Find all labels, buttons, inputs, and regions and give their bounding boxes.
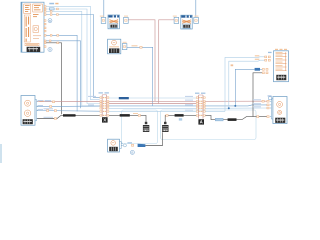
comp8 wire pins: [47, 101, 57, 120]
thick bar black r7 left: [63, 114, 76, 116]
bus left labels: [38, 100, 44, 101]
bus r2 red col1-col2: [109, 100, 198, 102]
circled label B2: [48, 47, 52, 51]
bus r4 blue col2-comp9: [205, 105, 267, 106]
bus r5 lblue col1-col2: [109, 107, 198, 109]
column1 pin number labels: [103, 97, 106, 116]
wire lamp1 feed vertical x103.8: [103, 0, 105, 17]
wire blue vert x236 to comp7: [235, 69, 254, 106]
comp9 label Ra: [268, 95, 272, 96]
zone box right (harness zone outline): [161, 110, 257, 140]
comp8 body: [21, 96, 35, 126]
column1 black box X: [102, 117, 108, 122]
wire dark comp8 ground row: [37, 115, 77, 118]
comp9 body: [273, 97, 287, 124]
svg-text:B: B: [49, 48, 51, 52]
column2 black box A: [198, 119, 204, 124]
wire box row y35.3 to vert x77: [44, 35, 77, 111]
lamp1 right tab: [124, 16, 129, 24]
thick bar blue comp10: [138, 144, 146, 147]
edge streak bottom-left: [0, 144, 2, 163]
wire comp10 ground to ground2: [145, 132, 162, 145]
wire lblue vert x228.8 to comp7: [229, 60, 265, 108]
wire lblue vert x225 to comp7: [225, 57, 265, 112]
bus r6 lblue comp8-col1: [37, 110, 100, 113]
wire lamp2 feed vertical x195.8: [195, 0, 197, 17]
bus r5 lblue col2-comp9: [205, 107, 267, 109]
wire labels row y6: [49, 3, 54, 5]
column2 labels top: [195, 93, 199, 94]
wire box row y6.4 to vert x90.5: [44, 6, 100, 99]
bus r7 dark col1 to ground1: [109, 115, 146, 122]
relay box pins right edge: [44, 6, 46, 48]
column2 twin verticals: [199, 95, 203, 119]
comp9 wire labels: [253, 99, 261, 100]
wire red lamp1 to vert x155 down to r2: [128, 20, 155, 102]
junction dot r4/x236: [234, 105, 236, 107]
wire box row y11.4 to vert x84: [44, 11, 100, 106]
wire box row y9 to vert x87: [44, 9, 100, 104]
comp7 left pins: [262, 56, 270, 74]
bus r3 red col1-col2: [109, 103, 198, 105]
column1 pins: [100, 97, 109, 116]
comp8 wire labels: [40, 100, 44, 101]
thick bar black r7 mid: [120, 114, 130, 117]
comp10 pin: [131, 144, 133, 146]
bus r1 light blue col1-col2: [109, 97, 198, 99]
r7 label left of ground1: [133, 113, 138, 114]
bus r6 lblue col1-col2: [109, 110, 198, 112]
column1 left wire labels: [88, 96, 96, 106]
wire dark col2 dip to comp9: [205, 115, 215, 119]
comp7 label Ra: [268, 52, 272, 53]
svg-text:B: B: [49, 19, 51, 23]
comp5 body: [108, 39, 121, 54]
zone label right: [179, 118, 182, 120]
wire comp5 to vert x152.7 down to r4: [127, 47, 153, 106]
thick bar black r7 right-mid: [175, 114, 184, 117]
relay box bottom grid: [27, 47, 41, 52]
bus r2 red col2-comp9: [205, 100, 267, 102]
comp9 pins: [257, 100, 270, 117]
junction dot r5/x228.8: [228, 107, 230, 109]
lamp1 left tab: [100, 16, 106, 24]
wire box row y14.5 to vert x93.5: [44, 15, 100, 98]
comp9 top tab: [269, 97, 272, 100]
bus r7 dark ground2 to col2: [165, 115, 198, 122]
comp8 right bracket tab: [35, 100, 38, 121]
comp7 top pin labels: [275, 49, 287, 50]
wire dark box row y42.8 down x63: [44, 43, 62, 115]
comp10 right bracket tab: [120, 142, 127, 149]
bus r5 lblue comp8-col1: [37, 105, 100, 108]
comp9 left bracket: [270, 99, 273, 119]
r7 pin left of ground1: [138, 115, 140, 117]
comp7 wire labels: [255, 55, 259, 60]
lamp2 right tab: [194, 16, 199, 24]
column2 pins: [196, 97, 205, 116]
svg-text:B: B: [131, 151, 133, 155]
wire box row y40.8 to vert x80.5: [44, 41, 81, 109]
bus r4 blue col1-col2: [109, 105, 198, 107]
comp7 body: [274, 51, 289, 82]
column1 twin verticals: [102, 95, 106, 117]
bus r7 dark left col1: [74, 114, 100, 116]
comp10 body: [108, 139, 120, 152]
circled label B1: [48, 19, 52, 23]
column2 pin number labels: [199, 97, 202, 116]
column2 left wire labels: [185, 96, 193, 111]
wire dark vertical x253 from comp7: [253, 73, 262, 117]
column1 labels top: [99, 92, 103, 93]
thick bar blue comp7 row: [255, 68, 260, 71]
comp5 wire labels and pin: [132, 45, 138, 46]
lamp1 body: [108, 15, 119, 29]
thick bar lblue col2 dip: [215, 118, 223, 121]
bus r6 lblue col2 to corner up x225: [205, 110, 225, 112]
relay box body: [21, 2, 44, 52]
label between elbows: [231, 64, 234, 66]
thick bar black col2 dip: [228, 118, 237, 121]
wire red vert x158.7 to lamp2: [159, 20, 174, 104]
circled label below comp10: [130, 150, 134, 154]
bus r2 red comp8-col1: [37, 101, 100, 103]
lamp2 body: [181, 15, 192, 29]
r7 pin left of bar right-mid: [166, 115, 168, 117]
thick bar dark blue r1: [119, 97, 129, 99]
comp10 labels: [127, 142, 132, 143]
lamp2 left tab: [173, 16, 179, 24]
comp5 right tab: [122, 42, 127, 50]
zone box left (harness zone outline): [122, 110, 158, 144]
